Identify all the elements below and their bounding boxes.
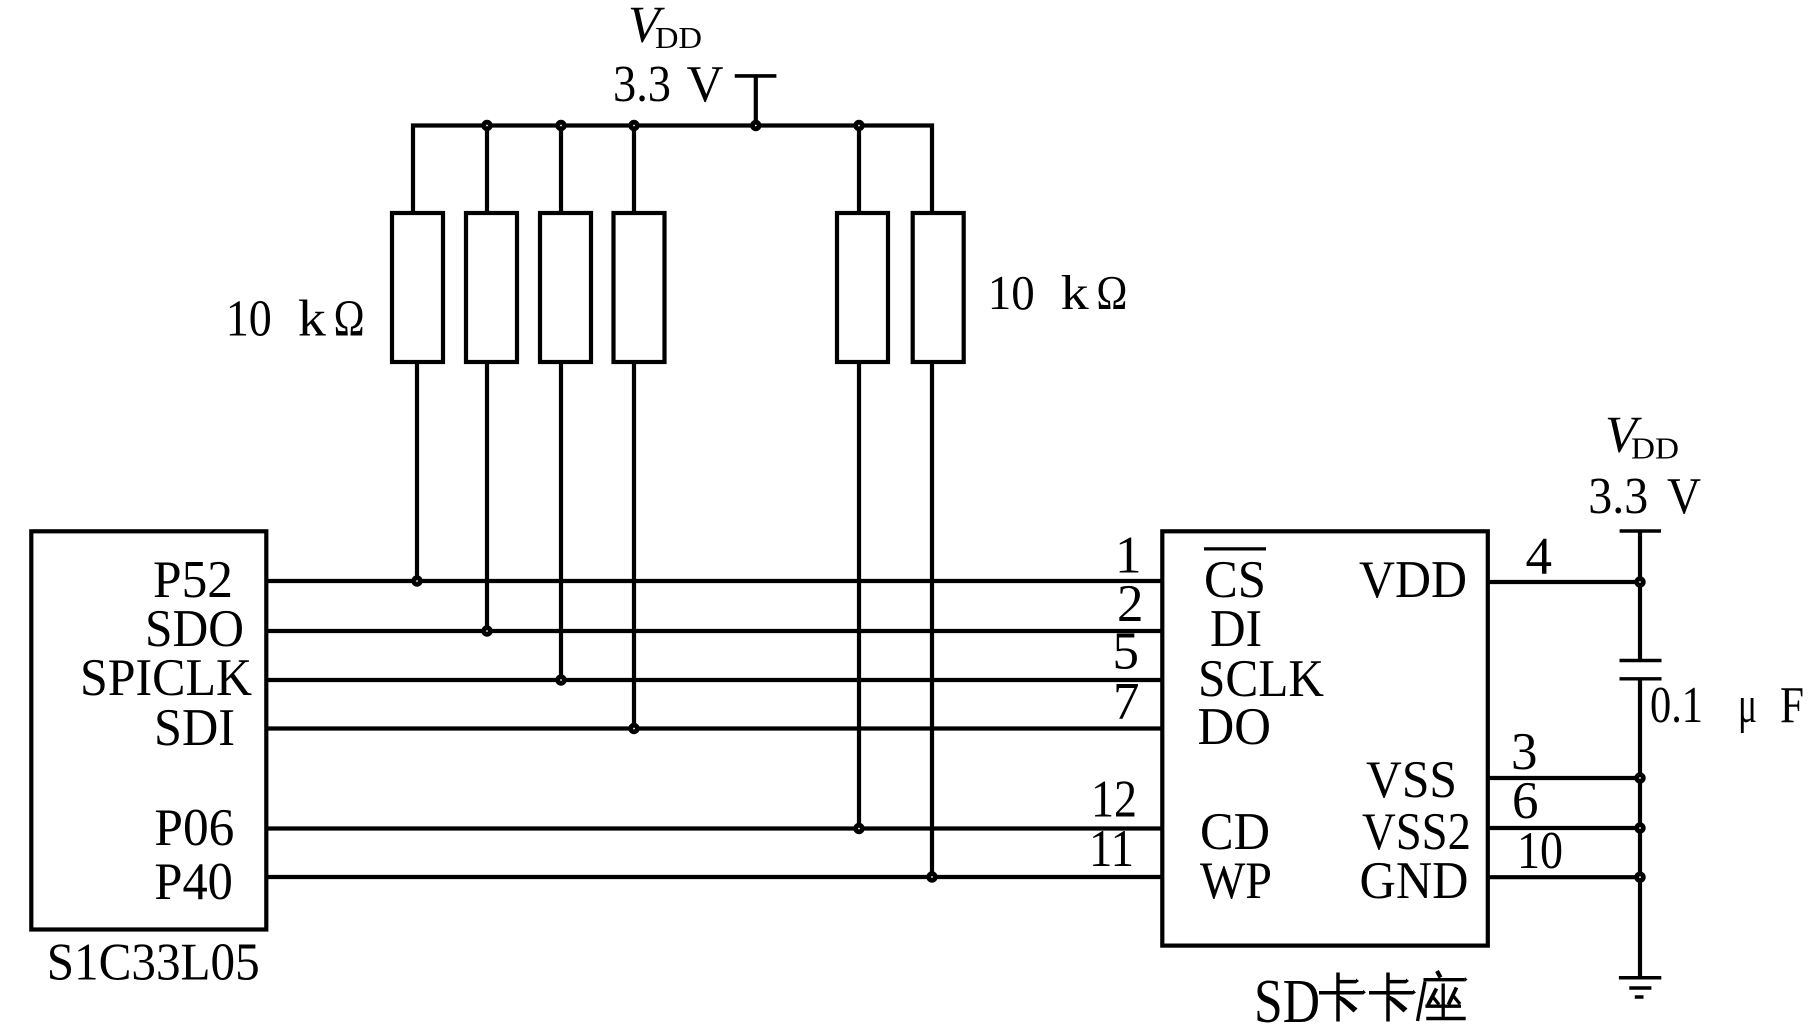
svg-text:7: 7 bbox=[1113, 673, 1140, 731]
resistor R3 bbox=[540, 213, 591, 362]
svg-text:μ: μ bbox=[1738, 677, 1757, 734]
svg-text:k: k bbox=[298, 291, 326, 348]
svg-text:11: 11 bbox=[1089, 820, 1134, 878]
resistor R4 bbox=[614, 213, 665, 362]
node GND junction bbox=[1634, 872, 1645, 883]
svg-text:5: 5 bbox=[1113, 623, 1140, 681]
wire VSS pin3 bbox=[1488, 776, 1640, 780]
wire VDD pin4 bbox=[1488, 580, 1640, 584]
node R4-SDI junction bbox=[628, 723, 639, 734]
resistor R5 bbox=[837, 213, 888, 362]
wire VSS2 pin6 bbox=[1488, 826, 1640, 830]
ground symbol bar2 bbox=[1629, 986, 1651, 990]
power VDD 3.3V bar right bbox=[1620, 529, 1661, 533]
wire GND pin10 bbox=[1488, 875, 1640, 879]
label hanzi ka 1 bbox=[1319, 973, 1366, 1022]
wire R3 top lead bbox=[559, 126, 563, 214]
svg-text:DO: DO bbox=[1198, 698, 1272, 756]
svg-text:VDD: VDD bbox=[1359, 551, 1467, 609]
svg-text:S1C33L05: S1C33L05 bbox=[47, 934, 260, 992]
wire SDI to DO pin7 bbox=[267, 726, 1162, 730]
node VDD-cap junction bbox=[1634, 576, 1645, 587]
wire R5 bottom lead bbox=[857, 362, 861, 829]
wire P06 to CD pin12 bbox=[267, 826, 1162, 830]
node bus-R4 junction bbox=[628, 120, 639, 131]
wire P40 to WP pin11 bbox=[267, 875, 1162, 879]
svg-text:10: 10 bbox=[988, 265, 1035, 320]
svg-text:VSS: VSS bbox=[1366, 751, 1457, 809]
svg-text:V: V bbox=[1667, 468, 1701, 525]
node R2-SDO junction bbox=[481, 625, 492, 636]
svg-text:SD: SD bbox=[1254, 968, 1320, 1028]
svg-text:Ω: Ω bbox=[334, 291, 365, 348]
svg-text:0.1: 0.1 bbox=[1650, 677, 1703, 734]
ground symbol bar3 bbox=[1635, 995, 1644, 999]
wire R4 bottom lead bbox=[632, 362, 636, 729]
resistor R2 bbox=[466, 213, 517, 362]
overline of CS pin label bbox=[1204, 547, 1266, 550]
svg-text:V: V bbox=[687, 56, 724, 113]
wire power drop left bbox=[754, 76, 758, 126]
svg-text:WP: WP bbox=[1200, 852, 1272, 910]
wire R2 top lead bbox=[485, 126, 489, 214]
svg-text:P40: P40 bbox=[154, 853, 233, 911]
svg-text:3.3: 3.3 bbox=[613, 56, 671, 113]
resistor R1 bbox=[392, 213, 443, 362]
IC U1 S1C33L05 box bbox=[31, 531, 266, 929]
svg-text:GND: GND bbox=[1360, 852, 1469, 910]
svg-text:Ω: Ω bbox=[1096, 265, 1127, 320]
node R3-SPICLK junction bbox=[555, 674, 566, 685]
label hanzi ka 2 bbox=[1369, 973, 1416, 1022]
node bus-R2 junction bbox=[481, 120, 492, 131]
node R6-P40 junction bbox=[926, 871, 937, 882]
wire SPICLK to SCLK pin5 bbox=[267, 678, 1162, 682]
capacitor C1 bottom plate bbox=[1620, 677, 1662, 680]
resistor R6 bbox=[913, 213, 964, 362]
node R5-P06 junction bbox=[853, 823, 864, 834]
node bus-power junction bbox=[750, 120, 761, 131]
svg-text:10: 10 bbox=[1517, 822, 1563, 880]
node VSS junction bbox=[1634, 772, 1645, 783]
svg-text:DD: DD bbox=[1631, 430, 1679, 465]
connector J1 SD card socket box bbox=[1162, 531, 1488, 945]
svg-text:F: F bbox=[1780, 677, 1804, 734]
svg-text:10: 10 bbox=[226, 291, 272, 348]
wire R2 bottom lead bbox=[485, 362, 489, 631]
wire R5 top lead bbox=[857, 126, 861, 214]
svg-text:SDI: SDI bbox=[154, 699, 235, 757]
svg-text:P06: P06 bbox=[154, 799, 234, 857]
wire VDD bus top bbox=[413, 126, 932, 214]
wire right vertical lower bbox=[1638, 679, 1642, 978]
ground symbol bar1 bbox=[1619, 976, 1661, 980]
node VSS2 junction bbox=[1634, 822, 1645, 833]
wire R4 top lead bbox=[632, 126, 636, 214]
wire right vertical upper bbox=[1638, 531, 1642, 661]
node bus-R5 junction bbox=[853, 120, 864, 131]
node R1-P52 junction bbox=[411, 575, 422, 586]
wire R6 bottom lead bbox=[930, 362, 934, 877]
svg-text:3.3: 3.3 bbox=[1588, 468, 1648, 525]
wire R1 bottom lead bbox=[415, 362, 419, 581]
label hanzi zuo bbox=[1418, 971, 1468, 1021]
wire SDO to DI pin2 bbox=[267, 629, 1162, 633]
svg-text:4: 4 bbox=[1526, 528, 1553, 586]
capacitor C1 top plate bbox=[1620, 659, 1662, 662]
power VDD 3.3V bar left bbox=[735, 74, 777, 78]
wire P52 to CS pin1 bbox=[267, 579, 1162, 583]
svg-text:DD: DD bbox=[655, 20, 702, 55]
wire R3 bottom lead bbox=[559, 362, 563, 680]
node bus-R3 junction bbox=[555, 120, 566, 131]
svg-text:k: k bbox=[1061, 265, 1090, 320]
